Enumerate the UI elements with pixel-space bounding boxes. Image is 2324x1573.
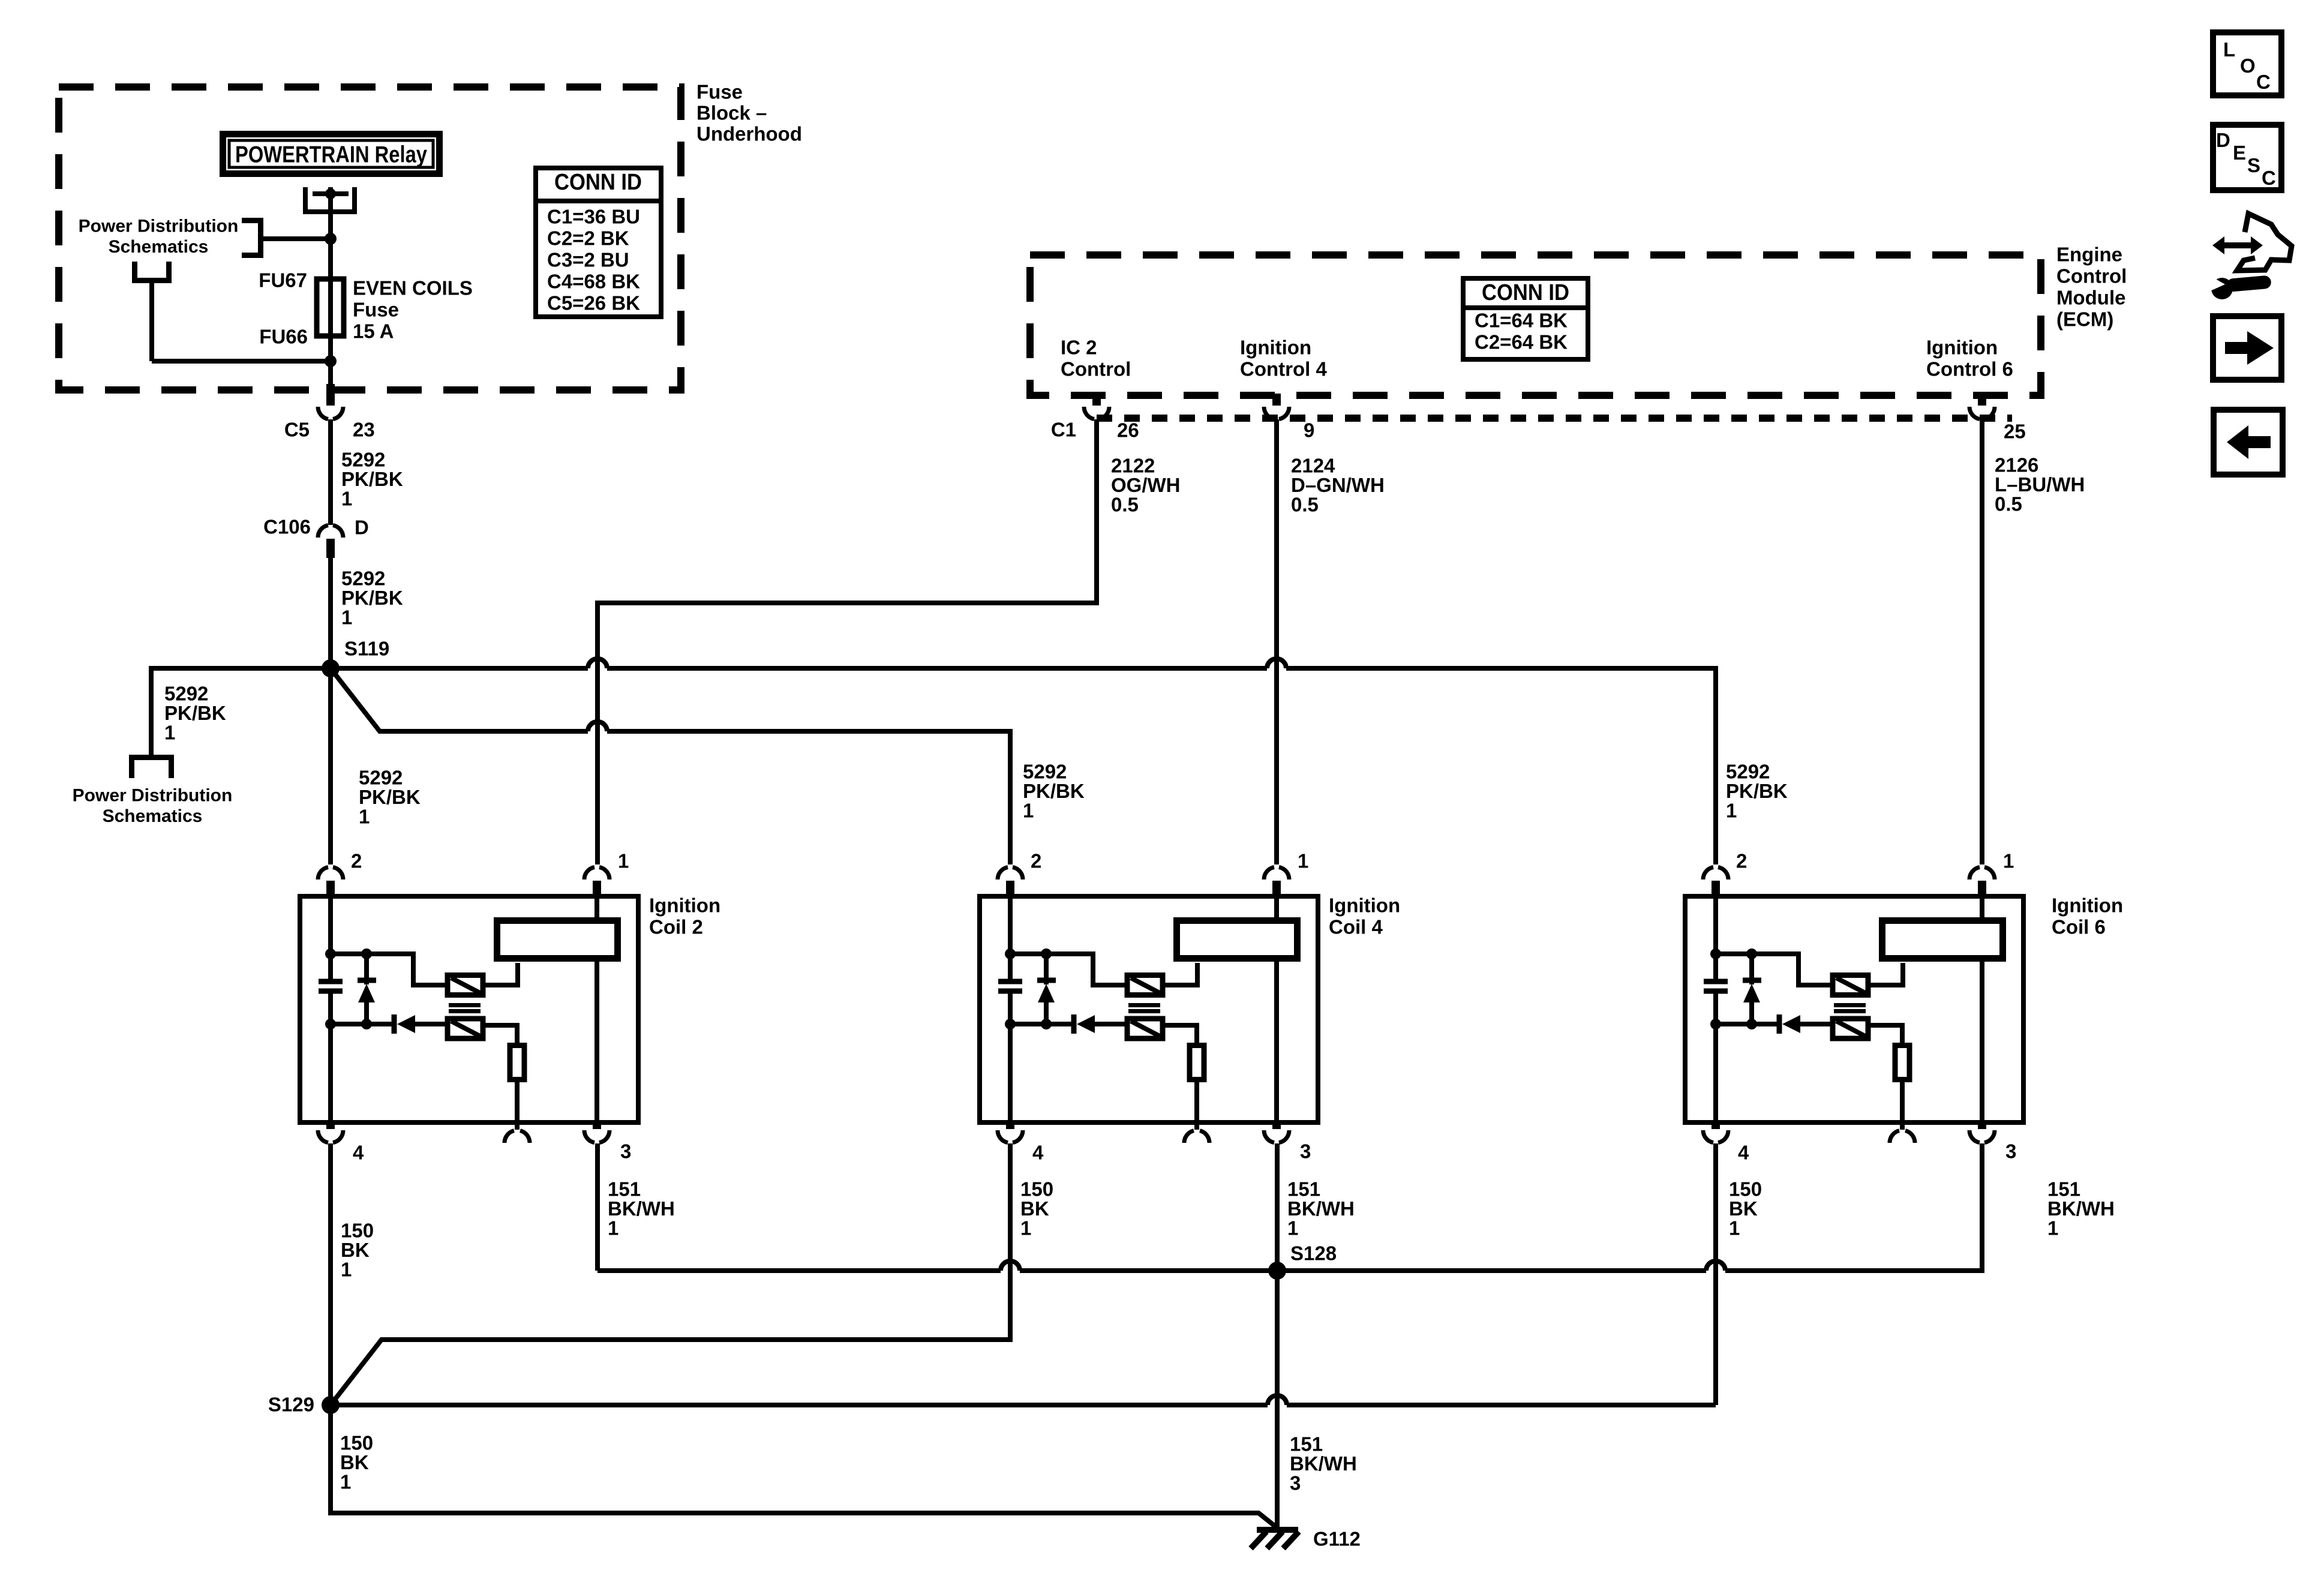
svg-text:1: 1 [1729, 1217, 1740, 1239]
svg-text:BK/WH: BK/WH [608, 1197, 675, 1220]
svg-text:L: L [2223, 38, 2235, 61]
svg-text:1: 1 [1298, 850, 1308, 872]
label: wire label 150 BK 1 (coil6 pin4) [1729, 1178, 1762, 1239]
svg-text:C1=64 BK: C1=64 BK [1475, 310, 1568, 332]
svg-text:0.5: 0.5 [1111, 494, 1139, 516]
relay terminal blade [313, 191, 349, 196]
wire coil 6 pin 4 down (150 BK) [1713, 1143, 1718, 1405]
off-page reference bracket (Power Distribution Schematics, left) [135, 262, 169, 281]
wire coil 4 pin 4 down (150 BK) [331, 1143, 1010, 1405]
svg-text:151: 151 [2047, 1178, 2080, 1200]
svg-text:BK/WH: BK/WH [1287, 1197, 1355, 1220]
svg-text:Fuse: Fuse [353, 299, 399, 321]
svg-text:9: 9 [1304, 419, 1314, 442]
svg-text:1: 1 [164, 722, 175, 744]
svg-text:1: 1 [1023, 800, 1034, 822]
label: wire label 150 BK 1 (S129 down) [340, 1432, 373, 1493]
svg-text:Block –: Block – [696, 102, 767, 124]
svg-text:Ignition: Ignition [1329, 894, 1400, 917]
label: wire label 151 BK/WH 3 (to G112) [1290, 1433, 1357, 1494]
svg-text:150: 150 [1020, 1178, 1053, 1200]
svg-text:151: 151 [1290, 1433, 1323, 1455]
svg-text:1: 1 [618, 850, 629, 872]
svg-text:5292: 5292 [341, 449, 385, 471]
label: CONN ID entries (fuse block) [547, 206, 640, 314]
svg-text:150: 150 [341, 1220, 374, 1242]
svg-text:FU67: FU67 [259, 269, 307, 292]
svg-text:D: D [355, 517, 369, 539]
icon next arrow box [2213, 316, 2281, 380]
label: IC 2 Control [1061, 337, 1131, 380]
svg-text:1: 1 [341, 1259, 352, 1281]
label: wire label 151 BK/WH 1 (coil4 pin3) [1287, 1178, 1355, 1239]
svg-text:PK/BK: PK/BK [1726, 780, 1788, 802]
svg-text:1: 1 [2003, 850, 2014, 872]
label: wire label 5292 PK/BK 1 (coil6 pin2) [1726, 761, 1788, 822]
Ignition Control 4 pin 9 female cup [1264, 407, 1289, 419]
svg-text:EVEN COILS: EVEN COILS [353, 277, 473, 299]
svg-text:C2=64 BK: C2=64 BK [1475, 331, 1568, 353]
svg-text:2126: 2126 [1995, 454, 2038, 476]
svg-text:3: 3 [620, 1140, 631, 1163]
svg-text:Module: Module [2056, 287, 2125, 309]
svg-text:D–GN/WH: D–GN/WH [1291, 474, 1385, 496]
svg-text:S119: S119 [344, 638, 389, 660]
label: Fuse Block - Underhood [696, 81, 802, 145]
svg-text:1: 1 [1287, 1217, 1298, 1239]
svg-text:L–BU/WH: L–BU/WH [1995, 473, 2085, 496]
svg-text:5292: 5292 [164, 683, 208, 705]
svg-text:PK/BK: PK/BK [359, 786, 421, 808]
svg-text:C: C [2262, 167, 2276, 189]
svg-text:C5=26 BK: C5=26 BK [547, 292, 640, 314]
wire junction to off-page bracket [262, 236, 331, 241]
label: wire label 5292 PK/BK 1 (S119 down) [359, 767, 421, 828]
label: Power Distribution Schematics (lower) [73, 786, 233, 827]
svg-text:C1=36 BU: C1=36 BU [547, 206, 640, 228]
wire fuse bottom tap to left branch [152, 359, 331, 364]
svg-text:1: 1 [359, 806, 370, 828]
fuse FU67/FU66 EVEN COILS 15A [317, 279, 344, 336]
label: Ignition Control 6 [1926, 337, 2013, 380]
svg-text:0.5: 0.5 [1291, 494, 1319, 516]
ignition coil 4 assembly [980, 867, 1318, 1143]
svg-text:2: 2 [1031, 850, 1041, 872]
label: wire label 150 BK 1 (coil4 pin4) [1020, 1178, 1053, 1239]
svg-text:15 A: 15 A [353, 320, 394, 343]
svg-text:S: S [2247, 154, 2260, 176]
icon DESC letters [2216, 129, 2276, 189]
svg-text:Power Distribution: Power Distribution [79, 217, 239, 236]
svg-text:5292: 5292 [1726, 761, 1770, 783]
svg-text:5292: 5292 [341, 568, 385, 590]
wire S129 bus to coil 6 pin 4 with hop [331, 1403, 1716, 1407]
svg-text:151: 151 [608, 1178, 641, 1200]
wire S119 to coil 2 pin 2 (5292 PK/BK) [328, 668, 333, 864]
label: Ignition Coil 2 title [649, 894, 720, 938]
Ignition Control 4 pin 9 stub [1272, 394, 1281, 406]
connector C106 female cap [318, 525, 343, 538]
Ignition Control 6 pin 25 female cup [1969, 407, 1995, 419]
IC 2 Control pin 26 stub [1092, 394, 1101, 406]
svg-text:PK/BK: PK/BK [1023, 780, 1085, 802]
svg-text:150: 150 [1729, 1178, 1762, 1200]
svg-text:C1: C1 [1051, 419, 1076, 441]
ECM connector C1 dotted boundary line [1097, 415, 2012, 422]
icon LOC box [2213, 32, 2281, 95]
svg-text:S129: S129 [268, 1394, 314, 1416]
svg-text:BK/WH: BK/WH [1290, 1452, 1357, 1475]
svg-text:1: 1 [1020, 1217, 1031, 1239]
svg-text:151: 151 [1287, 1178, 1320, 1200]
svg-text:Schematics: Schematics [103, 806, 203, 826]
svg-text:CONN ID: CONN ID [1482, 280, 1569, 305]
svg-text:S128: S128 [1290, 1242, 1337, 1265]
wire S128 ground bus with hops [597, 1143, 1982, 1271]
svg-text:E: E [2233, 142, 2246, 164]
svg-text:23: 23 [353, 419, 375, 441]
node: junction dot to power distribution tap [325, 233, 337, 245]
svg-text:BK: BK [341, 1239, 370, 1261]
label: wire label 5292 PK/BK 1 (C5-C106) [341, 449, 403, 510]
svg-text:C3=2 BU: C3=2 BU [547, 249, 629, 271]
wire coil 2 pin 3 down (151 BK/WH) [595, 1143, 600, 1271]
svg-text:(ECM): (ECM) [2056, 308, 2113, 331]
svg-text:PK/BK: PK/BK [164, 702, 226, 724]
node: relay output dot [325, 188, 336, 199]
label: Engine Control Module (ECM) [2056, 244, 2127, 331]
svg-text:26: 26 [1117, 419, 1139, 442]
svg-text:POWERTRAIN Relay: POWERTRAIN Relay [235, 142, 427, 168]
IC 2 Control pin 26 female cup [1084, 407, 1109, 419]
icon adjust: outline shape [2237, 214, 2292, 271]
node S129 splice dot [322, 1396, 340, 1414]
label: Power Distribution Schematics (upper) [79, 217, 239, 257]
label: wire label 2124 D-GN/WH 0.5 [1291, 455, 1385, 516]
label: wire label 5292 PK/BK 1 (coil4 pin2) [1023, 761, 1085, 822]
svg-text:Power Distribution: Power Distribution [73, 786, 233, 806]
svg-text:1: 1 [341, 488, 352, 510]
svg-text:BK/WH: BK/WH [2047, 1197, 2115, 1220]
svg-text:Underhood: Underhood [696, 123, 802, 145]
icon adjust: wrench [2208, 275, 2272, 299]
svg-text:1: 1 [340, 1471, 351, 1493]
svg-text:4: 4 [1032, 1142, 1044, 1164]
node S128 splice dot [1268, 1262, 1286, 1280]
wire S129 to ground G112 (150 BK) [331, 1405, 1277, 1527]
svg-text:1: 1 [2047, 1217, 2058, 1239]
svg-text:Coil 4: Coil 4 [1329, 916, 1383, 938]
svg-text:Coil 2: Coil 2 [649, 916, 703, 938]
svg-text:2122: 2122 [1111, 455, 1155, 477]
wire S119 right branch to coil 6 pin 2 (5292 PK/BK) with hops [331, 668, 1716, 864]
svg-text:Ignition: Ignition [1240, 337, 1311, 359]
svg-text:Control 4: Control 4 [1240, 358, 1327, 380]
label: wire label 2126 L-BU/WH 0.5 [1995, 454, 2085, 515]
wire IC 2 Control to coil 2 pin 1 (2122 OG/WH) [597, 419, 1097, 864]
svg-text:Ignition: Ignition [649, 894, 720, 917]
svg-text:C106: C106 [263, 516, 311, 538]
wire coil 2 pin 4 to S129 (150 BK) [328, 1143, 333, 1405]
svg-text:3: 3 [2005, 1140, 2016, 1163]
svg-text:5292: 5292 [359, 767, 403, 789]
svg-text:IC 2: IC 2 [1061, 337, 1097, 359]
svg-text:PK/BK: PK/BK [341, 468, 403, 490]
wire coil 4 pin 3 to S128 (151 BK/WH) [1275, 1143, 1280, 1271]
svg-text:Ignition: Ignition [1926, 337, 1998, 359]
svg-text:4: 4 [1738, 1142, 1749, 1164]
wire S119 left branch [151, 668, 331, 755]
icon LOC letters [2223, 38, 2271, 93]
label: wire label 151 BK/WH 1 (coil2 pin3) [608, 1178, 675, 1239]
Ignition Control 6 pin 25 stub [1978, 394, 1986, 406]
svg-text:Fuse: Fuse [696, 81, 743, 103]
svg-text:C2=2 BK: C2=2 BK [547, 227, 629, 250]
label: wire label 150 BK 1 (coil2 pin4) [341, 1220, 374, 1281]
node S119 splice dot [322, 659, 340, 677]
connector C5 female cup [318, 407, 343, 419]
relay terminal cup [305, 187, 355, 212]
svg-text:Ignition: Ignition [2052, 894, 2123, 917]
wire S119 diagonal branch to coil 4 pin 2 (5292 PK/BK) with hop [331, 668, 1010, 864]
svg-text:3: 3 [1300, 1140, 1311, 1163]
icon back arrow box [2214, 410, 2283, 475]
connector C106 pin D stub [326, 539, 335, 558]
svg-text:OG/WH: OG/WH [1111, 474, 1180, 496]
svg-text:150: 150 [340, 1432, 373, 1454]
wire C5 to C106 (5292 PK/BK) [328, 419, 333, 525]
wire C106 to S119 (5292 PK/BK) [328, 558, 333, 668]
wire relay to fuse FU67 [328, 187, 333, 386]
svg-text:1: 1 [608, 1217, 618, 1239]
label: wire label 151 BK/WH 1 (coil6 pin3) [2047, 1178, 2115, 1239]
label: Ignition Coil 6 title [2052, 894, 2123, 938]
off-page reference bracket (Power Distribution Schematics, upper) [242, 221, 261, 256]
svg-text:PK/BK: PK/BK [341, 587, 403, 609]
Engine Control Module dashed box [1030, 255, 2041, 395]
ignition coil 6 assembly [1685, 867, 2023, 1143]
svg-text:CONN ID: CONN ID [554, 170, 642, 195]
fuse block underhood dashed box [59, 87, 681, 390]
svg-text:Coil 6: Coil 6 [2052, 916, 2106, 938]
icon DESC box [2213, 125, 2281, 190]
svg-text:C: C [2256, 71, 2271, 93]
wire S128 to ground G112 (151 BK/WH 3) [1275, 1271, 1280, 1529]
svg-text:3: 3 [1290, 1472, 1301, 1494]
svg-text:BK: BK [340, 1451, 369, 1473]
wire Ignition Control 6 to coil 6 pin 1 (2126 L-BU/WH) [1980, 419, 1984, 864]
node: junction dot below fuse [325, 355, 337, 367]
label: EVEN COILS Fuse 15 A [353, 277, 473, 343]
svg-text:5292: 5292 [1023, 761, 1067, 783]
icon adjust: double arrow [2212, 236, 2263, 254]
label: wire label 5292 PK/BK 1 (S119 left) [164, 683, 226, 744]
relay K: POWERTRAIN Relay label box [220, 131, 443, 177]
wire Ignition Control 4 to coil 4 pin 1 (2124 D-GN/WH) [1274, 419, 1279, 864]
connector C5 pin 23 stub [326, 384, 335, 406]
svg-text:C5: C5 [284, 419, 310, 441]
svg-text:BK: BK [1020, 1197, 1049, 1220]
svg-text:O: O [2240, 55, 2256, 77]
ignition coil 2 assembly [300, 867, 638, 1143]
CONN ID table (fuse block) [536, 168, 661, 317]
label: Ignition Coil 4 title [1329, 894, 1400, 938]
label: Ignition Control 4 [1240, 337, 1327, 380]
svg-text:Control: Control [1061, 358, 1131, 380]
svg-text:25: 25 [2004, 421, 2026, 443]
svg-text:Engine: Engine [2056, 244, 2122, 266]
svg-text:1: 1 [1726, 800, 1737, 822]
svg-text:G112: G112 [1313, 1528, 1361, 1550]
svg-text:Control: Control [2056, 265, 2127, 287]
svg-text:2: 2 [351, 850, 362, 872]
icon back arrow glyph [2227, 425, 2271, 459]
label: wire label 2122 OG/WH 0.5 [1111, 455, 1180, 516]
svg-text:2: 2 [1736, 850, 1747, 872]
svg-text:0.5: 0.5 [1995, 493, 2022, 515]
svg-text:Control 6: Control 6 [1926, 358, 2013, 380]
svg-text:4: 4 [353, 1142, 364, 1164]
svg-text:C4=68 BK: C4=68 BK [547, 271, 640, 293]
svg-text:Schematics: Schematics [109, 237, 209, 257]
off-page reference bracket (Power Distribution Schematics, lower) [132, 758, 172, 779]
svg-text:BK: BK [1729, 1197, 1758, 1220]
svg-text:1: 1 [341, 607, 352, 629]
svg-text:FU66: FU66 [259, 326, 308, 348]
svg-text:2124: 2124 [1291, 455, 1335, 477]
label: CONN ID entries (ECM) [1475, 310, 1568, 353]
CONN ID table (ECM) [1463, 278, 1588, 359]
ground G112 symbol [1251, 1530, 1299, 1548]
svg-text:D: D [2216, 129, 2230, 151]
wire left branch vertical [149, 280, 154, 361]
label: wire label 5292 PK/BK 1 (C106-S119) [341, 568, 403, 629]
icon next arrow glyph [2225, 331, 2274, 365]
